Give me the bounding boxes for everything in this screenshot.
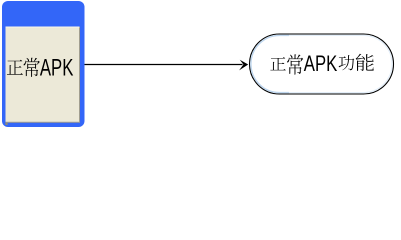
- node: normal APK box (blue rounded rect): [2, 1, 85, 127]
- label 功 (ellipse): [339, 55, 355, 70]
- wire: arrow shaft from box to ellipse: [85, 64, 243, 66]
- svg-text:APK: APK: [304, 52, 338, 77]
- inner light-blue rim (full, faint): [251, 35, 392, 92]
- label 常 (ellipse): [287, 54, 303, 74]
- svg-text:APK: APK: [40, 55, 74, 82]
- bevel light top edge of panel: [6, 26, 80, 28]
- label 正 (left box): [7, 60, 23, 75]
- use-case stadium: 正常APK功能: [250, 34, 394, 94]
- label 能 (ellipse): [356, 54, 374, 71]
- arrowhead (open V): [239, 60, 248, 71]
- shadow notch at panel bottom-left: [5, 123, 7, 125]
- label 常 (left box): [24, 58, 40, 77]
- label 正 (ellipse): [270, 57, 285, 70]
- node body: beige inner panel: [6, 27, 80, 123]
- bevel dark bottom/right edge of panel: [6, 27, 80, 122]
